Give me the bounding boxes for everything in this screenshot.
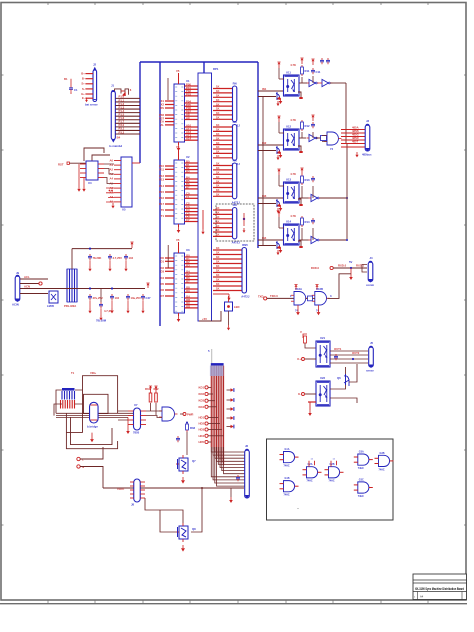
AND gate U15A <box>324 132 341 145</box>
gate G2B <box>325 459 344 483</box>
connector J8 <box>134 479 141 502</box>
svg-text:KD1: KD1 <box>198 385 204 389</box>
connector J2 battery <box>93 70 97 102</box>
junction dot RXD <box>350 267 352 269</box>
svg-text:C1: C1 <box>74 88 78 92</box>
filter top wire <box>72 248 132 250</box>
svg-text:1K: 1K <box>216 89 220 93</box>
svg-text:1K: 1K <box>216 107 220 111</box>
svg-text:74HC: 74HC <box>284 465 290 468</box>
svg-text:B-: B- <box>82 77 85 81</box>
power arrows above TXD gates <box>294 285 297 290</box>
U3 left pins <box>160 256 174 298</box>
wire U3 left vertical <box>167 245 169 268</box>
band fan to J6 <box>211 447 244 486</box>
transistor channel 1 <box>276 92 281 100</box>
wire loop above U4 <box>84 148 110 161</box>
svg-text:4.7K: 4.7K <box>290 118 296 122</box>
svg-text:78L05M: 78L05M <box>96 319 107 323</box>
dashed option box <box>216 204 254 241</box>
wire opto6 bottom left <box>308 401 316 403</box>
ground C41 <box>89 261 91 267</box>
svg-text:VIN+: VIN+ <box>90 371 97 375</box>
svg-text:V5: V5 <box>176 238 180 242</box>
svg-text:U21: U21 <box>320 336 326 340</box>
svg-text:b.bridge: b.bridge <box>87 425 98 429</box>
svg-text:P03: P03 <box>186 92 191 96</box>
capacitor C14 <box>311 218 315 224</box>
wire into AND inputs <box>322 83 346 141</box>
svg-text:LED: LED <box>234 305 240 309</box>
wire ch3 output <box>320 197 347 199</box>
gate G2A <box>303 459 322 483</box>
gate G3C <box>354 478 373 498</box>
svg-text:G1B: G1B <box>285 477 290 480</box>
svg-text:Q9: Q9 <box>186 289 190 293</box>
svg-text:D1: D1 <box>160 259 164 263</box>
wire ch1 output <box>330 82 346 84</box>
wire opto right-bottom channel 1 <box>298 92 301 97</box>
terminal RXD <box>330 266 333 269</box>
ground below RN5 <box>227 295 230 300</box>
svg-text:1K: 1K <box>216 111 220 115</box>
svg-text:G3C: G3C <box>359 478 364 481</box>
ground below Q5 <box>228 311 230 325</box>
wires transformer to loop <box>54 390 83 416</box>
capacitor C1 <box>69 86 73 92</box>
IC U1 <box>174 84 185 142</box>
svg-text:P1.2: P1.2 <box>119 102 125 106</box>
svg-text:TXD.0: TXD.0 <box>270 294 278 298</box>
ground C43 <box>125 261 127 267</box>
svg-text:1K: 1K <box>216 141 220 145</box>
svg-text:D3: D3 <box>160 269 164 273</box>
svg-text:1K: 1K <box>216 98 220 102</box>
svg-text:1K: 1K <box>216 175 220 179</box>
outer wire loop power <box>66 376 117 433</box>
power arrow above channel 1 <box>277 62 280 68</box>
gate U16B <box>312 292 330 306</box>
svg-text:1K: 1K <box>216 188 220 192</box>
svg-text:HD2: HD2 <box>198 422 204 426</box>
resistor R31 <box>149 389 152 402</box>
terminal U8 output <box>183 413 186 416</box>
svg-text:J9: J9 <box>16 271 20 275</box>
gates group box <box>267 439 394 520</box>
capacitor C42 <box>108 254 112 260</box>
svg-text:5V: 5V <box>349 260 353 264</box>
ground below U5 <box>111 203 114 208</box>
input wire opto channel 2 <box>258 144 283 146</box>
wire TXD output up <box>328 274 352 299</box>
terminal AC L <box>77 457 80 460</box>
svg-text:V5: V5 <box>176 69 180 73</box>
svg-text:4.7K: 4.7K <box>290 172 296 176</box>
svg-text:1K: 1K <box>216 224 220 228</box>
resistor network RN2 <box>213 123 233 158</box>
J1 pin wires <box>115 95 140 135</box>
wire R11 C11 down <box>301 77 303 83</box>
U2 ground pin bottom <box>178 224 180 227</box>
buffer gate ch2 <box>307 134 320 141</box>
optocoupler U13 <box>284 182 300 203</box>
gate G1B <box>280 477 299 497</box>
net stub top left opto5 <box>303 334 307 338</box>
svg-text:P3.1: P3.1 <box>119 127 125 131</box>
svg-text:G1A: G1A <box>285 448 290 451</box>
svg-text:RXD.0: RXD.0 <box>311 266 320 270</box>
svg-text:N: N <box>82 465 84 469</box>
capacitor C47 <box>141 294 145 300</box>
power arrow above channel 4 <box>277 211 280 217</box>
svg-text:485G: 485G <box>352 133 359 137</box>
caps above ch1 buffers <box>320 58 324 64</box>
MOSFET Q8 <box>176 523 188 542</box>
ground C42 <box>109 261 111 267</box>
regulator J7 block <box>134 408 141 430</box>
power arrow above channel 3 <box>277 169 280 175</box>
input wire opto channel 1 <box>258 90 283 92</box>
capacitor C11 <box>311 68 315 74</box>
wires U4 to U5 <box>104 164 114 184</box>
svg-text:HD4: HD4 <box>198 434 204 438</box>
resistor R12 <box>301 120 304 131</box>
ground below U4 b <box>83 178 85 187</box>
svg-text:HD1: HD1 <box>198 415 204 419</box>
svg-text:A9: A9 <box>186 116 190 120</box>
svg-text:P1.7: P1.7 <box>119 120 125 124</box>
svg-text:RP1: RP1 <box>213 67 219 71</box>
gray stub above band <box>211 349 213 363</box>
input wire b channel 2 <box>258 150 276 152</box>
capacitor C12 <box>311 122 315 128</box>
svg-text:R33: R33 <box>190 426 196 430</box>
bottom wrap wires power <box>66 413 117 448</box>
svg-text:A472J: A472J <box>241 295 250 299</box>
svg-text:1K: 1K <box>216 171 220 175</box>
power above R13 <box>300 168 303 174</box>
svg-text:1K: 1K <box>216 123 220 127</box>
transistor Q5 with LED <box>225 296 233 311</box>
wire between gates <box>308 296 313 301</box>
svg-text:U1: U1 <box>186 79 190 83</box>
svg-text:Q8: Q8 <box>192 527 196 531</box>
power above C11 <box>311 59 314 65</box>
svg-text:Q7: Q7 <box>186 279 190 283</box>
svg-text:1K: 1K <box>216 116 220 120</box>
svg-text:A2: A2 <box>109 168 113 172</box>
resistor R14 <box>301 216 304 227</box>
power arrow filter top <box>130 242 133 248</box>
capacitor C43 <box>124 254 128 260</box>
ground channel 3 b <box>276 208 279 213</box>
svg-text:+5V: +5V <box>202 317 207 321</box>
svg-text:QD: QD <box>186 304 190 308</box>
wire U1 left vertical <box>167 78 169 100</box>
svg-text:P1.4: P1.4 <box>119 109 125 113</box>
svg-text:1K: 1K <box>216 269 220 273</box>
svg-text:1K: 1K <box>216 94 220 98</box>
svg-text:KD2: KD2 <box>198 392 204 396</box>
svg-text:Q6: Q6 <box>337 376 341 380</box>
junction R33 <box>186 422 188 424</box>
svg-text:S-: S- <box>82 87 85 91</box>
svg-text:74: 74 <box>330 147 334 151</box>
svg-text:to mainbd: to mainbd <box>109 144 122 148</box>
IC U2 <box>174 160 185 224</box>
svg-text:K+: K+ <box>297 357 301 361</box>
daisy wire ch3-ch4 <box>262 204 264 246</box>
svg-text:AL: AL <box>160 123 164 127</box>
svg-text:D7: D7 <box>160 294 164 298</box>
ground C46 <box>127 301 129 309</box>
wire cluster left of U5 <box>106 188 114 202</box>
transistor channel 3 <box>276 199 281 207</box>
RN2 capsule <box>233 125 237 161</box>
svg-text:J1: J1 <box>111 84 115 88</box>
svg-text:P3.2: P3.2 <box>119 130 125 134</box>
svg-text:4.7K: 4.7K <box>290 214 296 218</box>
ground C44 <box>89 301 91 309</box>
bus vertical to U5 <box>139 62 141 163</box>
junction long wire <box>201 487 203 489</box>
wires regulator to gate <box>118 411 162 420</box>
vertical wire bus right of buffers <box>345 83 347 143</box>
power arrow above channel 2 <box>277 116 280 122</box>
svg-text:1K: 1K <box>216 179 220 183</box>
junction dots filter top <box>89 248 91 250</box>
svg-text:G2A: G2A <box>308 463 313 466</box>
svg-text:1K: 1K <box>216 260 220 264</box>
svg-text:RN: RN <box>233 203 237 207</box>
svg-text:J3: J3 <box>366 119 370 123</box>
svg-text:P17: P17 <box>159 202 164 206</box>
resistor R32 <box>155 389 158 402</box>
svg-text:1K: 1K <box>216 282 220 286</box>
resistor network RN3 <box>213 162 233 197</box>
svg-text:J4: J4 <box>370 256 374 260</box>
red line inside RP1 with ground <box>202 210 204 229</box>
resistor network RN4 <box>213 206 233 236</box>
svg-text:P11: P11 <box>159 167 164 171</box>
svg-text:U22: U22 <box>320 376 326 380</box>
gate G1A <box>280 448 299 468</box>
svg-text:E+: E+ <box>81 92 85 96</box>
capacitor C44 <box>88 294 92 300</box>
svg-text:E-: E- <box>82 96 85 100</box>
wire R33 down to Q7 <box>186 432 188 455</box>
J1 top hook with diode <box>115 89 129 95</box>
svg-text:485B: 485B <box>352 129 359 133</box>
filter mid wire <box>58 288 145 290</box>
RN3 capsule <box>233 163 237 199</box>
resistor R33 <box>186 422 189 432</box>
IC U3 <box>174 253 185 313</box>
U1 power pin top <box>178 73 180 84</box>
svg-text:RST: RST <box>58 163 64 167</box>
buffer gate ch1 b <box>320 79 333 86</box>
series resistor ch2 <box>321 136 327 141</box>
svg-text:1K: 1K <box>216 287 220 291</box>
terminal AC N <box>77 465 80 468</box>
svg-text:OUT1: OUT1 <box>334 347 342 351</box>
stray mark in gates box <box>298 508 299 509</box>
svg-text:RXD.0: RXD.0 <box>338 264 347 268</box>
crossing wires power to J7 <box>56 413 133 417</box>
junction ch4 output <box>346 239 348 241</box>
svg-text:U14: U14 <box>286 220 292 224</box>
daisy wire ch2-ch3 <box>262 151 264 204</box>
title block <box>413 574 467 600</box>
U2 left pins <box>159 164 174 218</box>
svg-text:4.7K: 4.7K <box>290 63 296 67</box>
ground below optocoupler U13 <box>279 205 283 211</box>
svg-text:A1: A1 <box>109 163 113 167</box>
ground below RXD junction <box>350 268 352 274</box>
terminal opto6 input <box>302 393 305 396</box>
branch small cap <box>100 289 102 303</box>
resistor network RN1 <box>213 85 233 120</box>
bridge rectifier B1 <box>90 402 99 423</box>
U2 power pin top <box>178 149 180 160</box>
junction ch3 output <box>346 197 348 199</box>
svg-text:1K: 1K <box>216 154 220 158</box>
svg-text:1K: 1K <box>216 251 220 255</box>
bus +5V horizontal <box>140 61 258 63</box>
svg-text:C1: C1 <box>186 195 190 199</box>
svg-text:T1: T1 <box>71 371 75 375</box>
svg-text:104: 104 <box>115 296 120 300</box>
optocoupler U11 <box>284 75 300 96</box>
gate G3A <box>354 451 373 471</box>
wires to J4 upper <box>362 265 367 273</box>
svg-text:D5: D5 <box>160 282 164 286</box>
ground C47 <box>142 301 144 309</box>
IC U4 reset <box>86 161 98 180</box>
svg-text:OUT2: OUT2 <box>352 351 360 355</box>
svg-text:sense: sense <box>366 370 374 373</box>
IC U5 driver <box>121 157 132 207</box>
buffer gate ch4 <box>309 236 322 243</box>
svg-text:1K: 1K <box>216 228 220 232</box>
svg-text:1K: 1K <box>216 211 220 215</box>
svg-text:ACIN: ACIN <box>12 303 19 307</box>
input wire b channel 3 <box>258 203 276 205</box>
svg-text:1K: 1K <box>216 102 220 106</box>
ground below opto6 <box>309 402 311 410</box>
resistor R11 <box>301 65 304 76</box>
junction dots filter mid <box>89 287 91 289</box>
svg-text:485T: 485T <box>352 140 359 144</box>
svg-text:1K: 1K <box>216 128 220 132</box>
svg-text:1K: 1K <box>216 264 220 268</box>
wire R14 C14 down <box>301 228 303 240</box>
svg-text:C7: C7 <box>186 218 190 222</box>
wire opto2 to buffer <box>299 137 306 139</box>
buffer gate ch3 <box>309 194 322 201</box>
svg-text:P14: P14 <box>159 184 164 188</box>
connector J5 <box>369 347 374 367</box>
ground below optocoupler U12 <box>279 152 283 158</box>
transistor Q6 <box>344 374 349 386</box>
diode in dashed box <box>243 218 245 220</box>
wire gate output to terminal <box>180 413 183 415</box>
svg-text:B7: B7 <box>186 185 190 189</box>
ground near J7 <box>127 417 129 428</box>
svg-text:10u,25V: 10u,25V <box>131 296 142 300</box>
svg-text:KD3: KD3 <box>198 399 204 403</box>
svg-text:S+: S+ <box>81 82 85 86</box>
U3 right pins <box>185 254 199 309</box>
wires R31 R32 down <box>151 403 157 415</box>
band terminals and labels <box>198 385 223 444</box>
svg-text:A472J: A472J <box>232 240 241 244</box>
ground below Q8 <box>181 545 185 552</box>
input wire b channel 4 <box>258 245 276 247</box>
svg-text:PRL-M2A: PRL-M2A <box>64 304 76 308</box>
transformer T1 top bar <box>62 388 75 391</box>
wire opto right-bottom channel 2 <box>298 146 301 151</box>
ground C45 <box>111 301 113 309</box>
terminal TXD <box>264 297 267 300</box>
svg-text:1K: 1K <box>216 219 220 223</box>
svg-text:J6: J6 <box>245 444 249 448</box>
crystal U9 block <box>49 291 58 303</box>
ground below optocoupler U11 <box>279 98 283 104</box>
wire opto right-bottom channel 4 <box>298 241 301 246</box>
daisy wire ch1-ch2 <box>262 97 264 151</box>
svg-text:1K: 1K <box>216 132 220 136</box>
svg-text:D4: D4 <box>160 276 164 280</box>
svg-text:A4: A4 <box>109 177 113 181</box>
svg-text:485bus: 485bus <box>362 153 372 157</box>
ground at J2 <box>85 98 88 103</box>
RN4 capsule <box>233 208 237 239</box>
AND gate U8A <box>159 407 178 421</box>
svg-text:74HC: 74HC <box>284 494 290 497</box>
U2 right pins <box>185 160 199 223</box>
svg-text:X2: X2 <box>161 103 165 107</box>
svg-text:1K: 1K <box>216 246 220 250</box>
svg-text:R11: R11 <box>305 69 310 73</box>
svg-text:7805: 7805 <box>133 431 140 435</box>
svg-text:1K: 1K <box>216 136 220 140</box>
svg-text:KD4: KD4 <box>198 405 204 409</box>
svg-text:P15: P15 <box>159 190 164 194</box>
terminal on J9 wire <box>39 282 42 285</box>
svg-text:B1: B1 <box>64 77 68 81</box>
wire opto1 to buffer <box>299 82 307 84</box>
transformer T1 windings <box>62 391 75 400</box>
svg-text:1K: 1K <box>216 145 220 149</box>
power arrow filter mid <box>146 283 149 288</box>
power arrows above R31 R32 <box>149 386 152 390</box>
MOSFET Q7 <box>176 455 188 474</box>
svg-text:HD5: HD5 <box>198 440 204 444</box>
svg-text:P1.3: P1.3 <box>119 105 125 109</box>
connector J9 left edge <box>15 276 20 301</box>
svg-text:74HC: 74HC <box>379 468 385 471</box>
ground channel 4 b <box>276 250 279 255</box>
svg-text:485R: 485R <box>352 136 359 140</box>
band top blue bar <box>211 363 224 365</box>
svg-text:1K: 1K <box>216 85 220 89</box>
bus stub to RP block <box>203 62 205 73</box>
svg-text:104: 104 <box>129 256 134 260</box>
svg-text:1K: 1K <box>216 273 220 277</box>
svg-text:U11: U11 <box>286 71 291 75</box>
svg-text:V5: V5 <box>176 145 180 149</box>
